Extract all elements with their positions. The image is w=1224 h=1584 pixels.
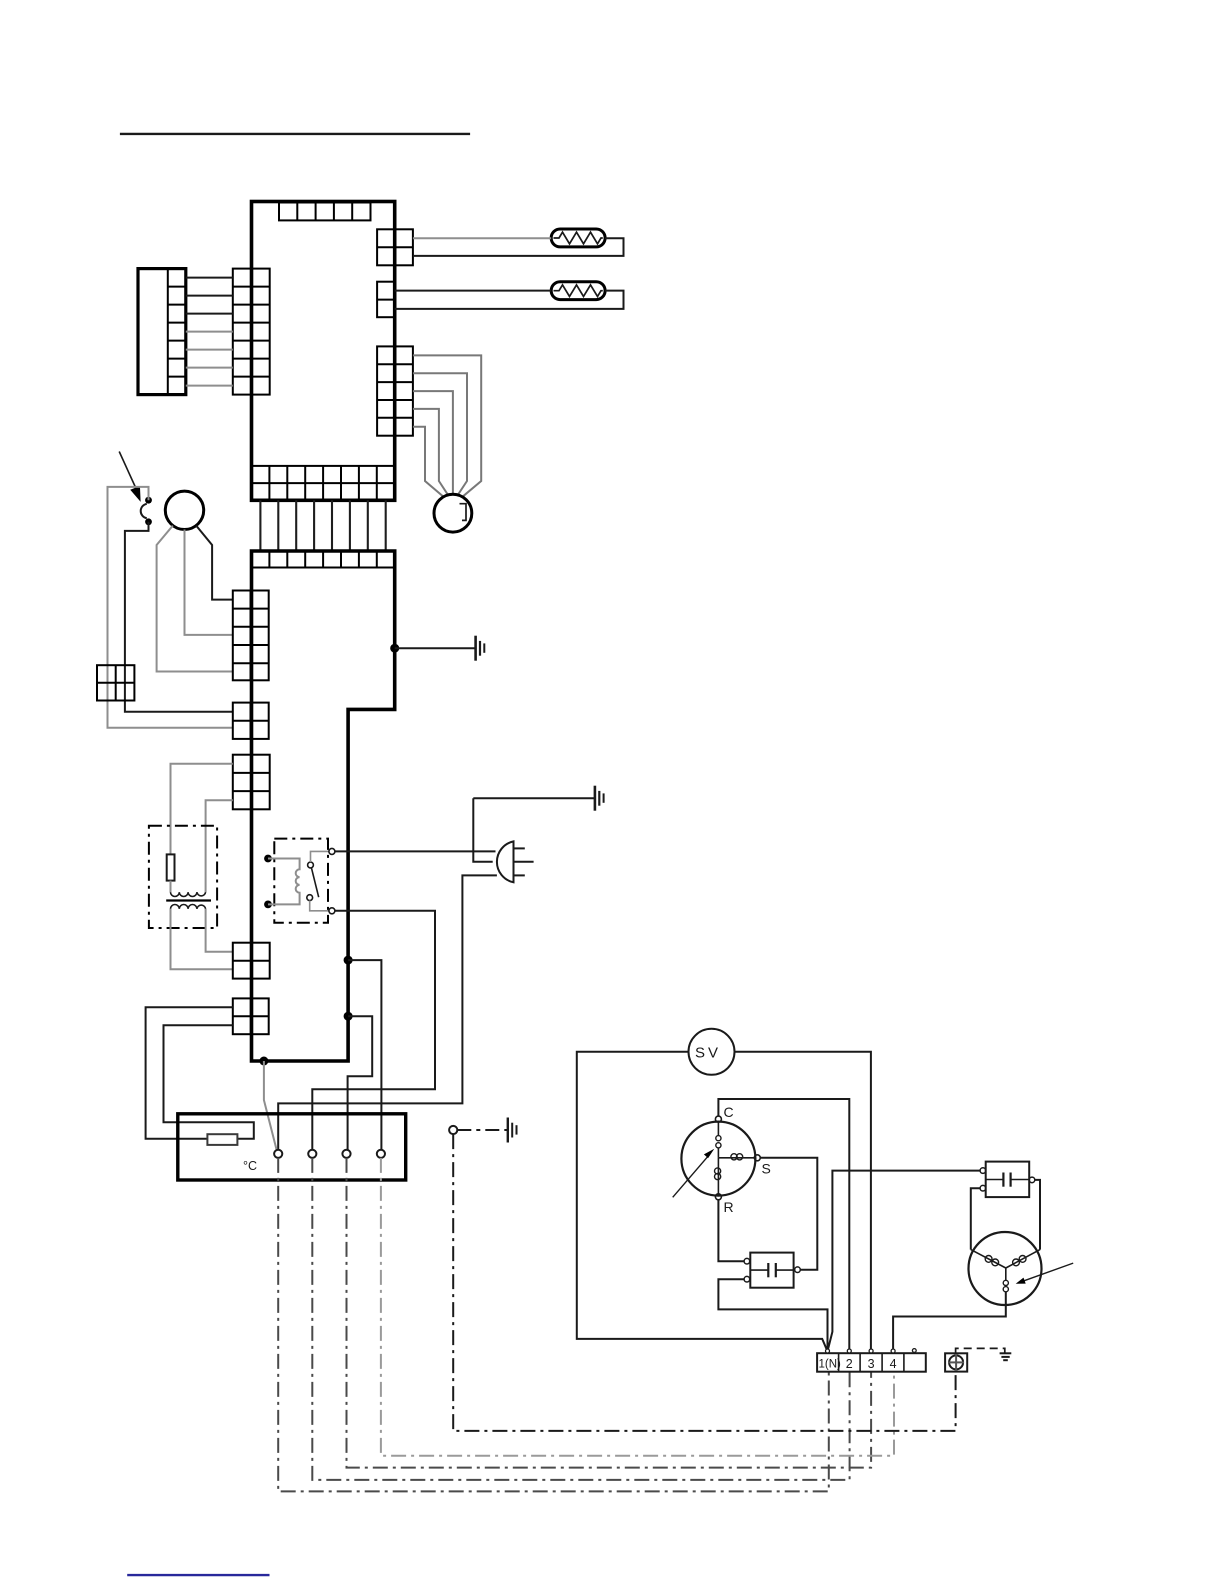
main control board PCB1 outline bbox=[252, 202, 395, 501]
compressor terminal S bbox=[754, 1155, 760, 1161]
compressor internal junction lead bbox=[717, 1148, 719, 1158]
relay RY1 coil terminal dots bbox=[264, 855, 272, 863]
wire S to run capacitor right bbox=[760, 1158, 817, 1270]
earth terminal circle bbox=[449, 1126, 457, 1134]
wire earth circle to ground G3 (dash-dot) bbox=[457, 1129, 508, 1131]
relay RY1 fixed contact bbox=[307, 895, 313, 901]
wire sensor2 to terminal 2 (dash-dot) bbox=[312, 1158, 849, 1480]
wire display row5 bbox=[186, 349, 233, 351]
svg-text:°C: °C bbox=[243, 1159, 257, 1173]
fan capacitor terminals bbox=[980, 1168, 986, 1174]
connector CN-ribbon (8x2) at PCB1 bottom bbox=[252, 466, 395, 500]
wire to chassis ground bbox=[395, 647, 476, 649]
wire louver lead3 bbox=[413, 391, 453, 494]
connector CN-heater2 (1x2) on PCB1 right edge bbox=[377, 282, 395, 318]
compressor terminal R bbox=[715, 1194, 721, 1200]
run capacitor terminals bbox=[744, 1258, 750, 1264]
wire xfmr secondary left bbox=[171, 909, 233, 969]
wire fan common to terminal 1(N) bbox=[828, 1171, 981, 1352]
wire relay to plug (line) bbox=[335, 850, 496, 852]
connector CN-buzzer (2x5) on PCB2 left edge bbox=[233, 591, 269, 681]
wire plug line lead to terminal circle1 bbox=[278, 875, 497, 1149]
ground screw box bbox=[945, 1353, 967, 1371]
connector CN-xfmr-pri (2x3) on PCB2 left edge bbox=[233, 755, 270, 810]
wire sensor3 to terminal 3 (dash-dot) bbox=[347, 1158, 872, 1468]
rivet dot on spare cell bbox=[912, 1349, 916, 1353]
transformer T1 core bbox=[166, 899, 211, 901]
wire louver lead2 bbox=[413, 373, 467, 495]
connector CN-xfmr-sec (2x2) on PCB2 left edge bbox=[233, 943, 270, 979]
heater R1 zigzag bbox=[554, 232, 603, 244]
connector CN-display (7x2) on PCB1 left edge bbox=[233, 269, 270, 395]
wire louver lead1 bbox=[413, 355, 481, 496]
ground G4 (earth) bbox=[1000, 1353, 1012, 1360]
ribbon cable PCB1 to PCB2 bbox=[260, 500, 385, 551]
solenoid valve SV bbox=[689, 1029, 735, 1075]
relay RY1 output terminals bbox=[329, 848, 335, 854]
svg-text:1(N): 1(N) bbox=[819, 1359, 842, 1371]
terminal lug circles bbox=[826, 1349, 830, 1353]
thermal fuse F2 bbox=[207, 1134, 237, 1145]
wire SV right to terminal 3 bbox=[735, 1052, 871, 1352]
wire heater2 feed bbox=[395, 290, 552, 292]
fan capacitor C2 box bbox=[986, 1162, 1029, 1198]
wire plug neutral lead with ground tee bbox=[473, 798, 492, 862]
wire sensor1 to terminal 1(N) (dash-dot) bbox=[278, 1158, 829, 1492]
svg-text:2: 2 bbox=[846, 1357, 853, 1371]
svg-text:3: 3 bbox=[868, 1357, 875, 1371]
wire display row6 bbox=[186, 367, 233, 369]
ground G3 bbox=[508, 1118, 517, 1143]
ground G2 (power cord) bbox=[595, 786, 604, 811]
compressor M2 body bbox=[681, 1122, 755, 1196]
connector CN-switch passthrough (2x2) bbox=[97, 665, 134, 700]
louver motor internal mark bbox=[460, 504, 467, 521]
sensor terminal circle2 bbox=[308, 1150, 316, 1158]
junction PCB2 edge node2 bbox=[344, 1012, 353, 1021]
ground screw head bbox=[949, 1355, 963, 1369]
compressor run winding coil bbox=[717, 1158, 719, 1194]
title underline bbox=[120, 133, 470, 135]
svg-text:C: C bbox=[724, 1104, 734, 1120]
wire display row3 bbox=[186, 313, 233, 315]
wire run capacitor bottom to terminal 1(N) bbox=[718, 1279, 827, 1351]
connector CN-ribbon2 (8x1) at PCB2 top bbox=[252, 551, 395, 568]
sensor terminal circle3 bbox=[342, 1150, 350, 1158]
wire heater1 return bbox=[413, 238, 624, 256]
compressor internal lead from C bbox=[717, 1122, 719, 1136]
sensor terminal strip box bbox=[178, 1114, 406, 1180]
wire display row4 bbox=[186, 331, 233, 333]
arrow pointer to compressor overload bbox=[673, 1154, 710, 1197]
relay RY1 movable contact bbox=[308, 862, 314, 868]
transformer T1 primary coil bbox=[171, 892, 206, 896]
compressor terminal C bbox=[715, 1116, 721, 1122]
wire node1 to terminal circle4 bbox=[348, 960, 381, 1150]
wire SW1 top to CN (gray outer) bbox=[108, 487, 233, 728]
switch SW1 contact dots bbox=[145, 497, 152, 504]
heater R1 element bbox=[551, 229, 605, 247]
display unit block bbox=[138, 269, 186, 395]
connector CN-louver (2x5) on PCB1 right edge bbox=[377, 346, 413, 435]
heater R2 zigzag bbox=[554, 285, 603, 297]
wire buzzer lead mid (gray) bbox=[185, 530, 233, 635]
wire buzzer lead left (gray) bbox=[157, 526, 233, 672]
switch SW1 blade arc bbox=[141, 504, 147, 518]
connector CN-heater1 (2x2) on PCB1 right edge bbox=[377, 229, 413, 265]
wire node2 to terminal circle3 bbox=[348, 1016, 373, 1149]
buzzer BZ bbox=[165, 491, 203, 529]
fan capacitor C2 symbol bbox=[986, 1173, 1029, 1187]
wire SV left to terminal 1(N) bbox=[577, 1052, 828, 1352]
wire relay to terminal circle2 bbox=[312, 911, 435, 1150]
ground G1 (chassis) bbox=[476, 636, 485, 661]
wire louver lead5 bbox=[413, 427, 444, 497]
fan motor M3 body bbox=[969, 1232, 1042, 1305]
junction PCB2 bottom node bbox=[259, 1057, 268, 1066]
plug prong 1 bbox=[514, 847, 525, 849]
wire SW1 bottom to CN (black inner) bbox=[125, 522, 233, 712]
wire bottom node to terminal circle1 (gray diagonal) bbox=[264, 1061, 277, 1151]
wire to ground G2 bbox=[473, 797, 595, 799]
wire xfmr secondary right bbox=[206, 909, 233, 952]
wire compressor C to terminal 2 bbox=[718, 1099, 849, 1352]
wire fuse to primary coil bbox=[170, 881, 172, 893]
svg-text:S: S bbox=[762, 1161, 771, 1177]
svg-text:4: 4 bbox=[890, 1357, 897, 1371]
louver motor M1 bbox=[434, 494, 472, 532]
compressor overload contacts bbox=[716, 1136, 721, 1141]
heater R2 element bbox=[551, 282, 605, 300]
wire sensor4 to terminal 4 (dash-dot gray) bbox=[381, 1158, 894, 1456]
wire fan cap right to motor bbox=[1035, 1180, 1040, 1250]
junction PCB2 earth node bbox=[390, 644, 399, 653]
connector CN-sw (2x2) on PCB2 left edge bbox=[233, 703, 269, 739]
plug prong 3 bbox=[514, 874, 525, 876]
wire display row2 bbox=[186, 295, 233, 297]
relay RY1 contact stem lower bbox=[310, 901, 329, 911]
wire fan cap left-bottom to motor bbox=[971, 1188, 980, 1249]
power board PCB2 outline (L-shape) bbox=[252, 551, 395, 1061]
wire heater2 return bbox=[395, 291, 624, 309]
fuse F1 bbox=[167, 854, 175, 880]
arrow pointer to switch SW1 bbox=[119, 452, 136, 490]
run capacitor C1 symbol bbox=[750, 1263, 793, 1277]
transformer T1 secondary coil bbox=[171, 905, 206, 909]
relay RY1 coil bbox=[268, 859, 300, 905]
connector CN-top (5-pin) on PCB1 top edge bbox=[279, 203, 371, 221]
wire earth circle to ground screw (dash-dot) bbox=[453, 1134, 955, 1431]
outdoor terminal block bbox=[817, 1353, 926, 1372]
connector CN-thermistor (2x2) on PCB2 left edge bbox=[233, 998, 269, 1034]
wire thermistor loop lower bbox=[164, 1025, 254, 1139]
page footer rule (blue) bbox=[127, 1574, 269, 1576]
wire display row1 bbox=[186, 277, 233, 279]
relay RY1 contact stem upper bbox=[311, 851, 329, 862]
wire R to run capacitor left-top bbox=[718, 1200, 744, 1261]
junction PCB2 edge node1 bbox=[344, 956, 353, 965]
wire louver lead4 bbox=[413, 409, 448, 495]
sensor terminal circle1 bbox=[274, 1150, 282, 1158]
relay RY1 blade bbox=[311, 868, 318, 898]
fan motor thermal protector bbox=[1005, 1268, 1007, 1280]
fan motor winding upper-left bbox=[971, 1250, 1006, 1268]
relay RY1 dash-dot enclosure bbox=[274, 839, 328, 923]
power plug P1 body bbox=[497, 841, 514, 882]
wire ground screw to earth G4 (dashed) bbox=[956, 1348, 1005, 1353]
compressor start winding coil bbox=[718, 1157, 754, 1159]
wire buzzer lead right (black) bbox=[196, 526, 233, 600]
wire thermistor loop upper bbox=[146, 1007, 233, 1138]
fan motor winding upper-right bbox=[1006, 1250, 1040, 1268]
transformer T1 dash-dot enclosure bbox=[149, 826, 217, 928]
sensor terminal circle4 bbox=[377, 1150, 385, 1158]
wire xfmr primary right bbox=[206, 800, 233, 892]
svg-text:SV: SV bbox=[695, 1045, 721, 1062]
arrow pointer to fan protector bbox=[1024, 1263, 1073, 1281]
run capacitor C1 box bbox=[750, 1253, 793, 1288]
svg-text:R: R bbox=[724, 1199, 734, 1215]
wire display row7 bbox=[186, 385, 233, 387]
plug prong 2 bbox=[514, 861, 534, 863]
wire heater1 feed bbox=[413, 237, 551, 239]
wire fan motor to terminal 4 bbox=[893, 1292, 1006, 1349]
wire xfmr primary left bbox=[171, 764, 233, 855]
